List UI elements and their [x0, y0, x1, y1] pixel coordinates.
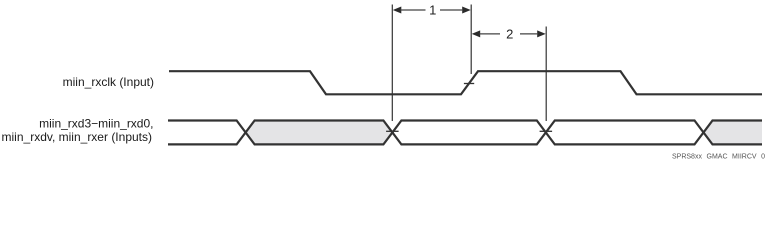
tick mark on bus crossing at x=392 — [386, 130, 399, 132]
svg-text:miin_rxclk (Input): miin_rxclk (Input) — [63, 75, 154, 89]
svg-text:miin_rxd3−miin_rxd0,: miin_rxd3−miin_rxd0, — [39, 116, 153, 130]
bus shaded segment E fill — [704, 121, 763, 145]
measurement arrow 1 right dash — [440, 9, 463, 11]
measurement arrow 1 left dash — [401, 9, 426, 11]
svg-text:2: 2 — [506, 26, 513, 41]
bus waveform rail 2 — [168, 121, 762, 145]
dimension extension line at x=546 — [545, 27, 547, 122]
measurement arrow 2 right dash — [520, 33, 538, 35]
clock waveform miin_rxclk — [169, 71, 762, 94]
measurement arrow 1 right head — [462, 7, 471, 14]
svg-text:miin_rxdv, miin_rxer (Inputs): miin_rxdv, miin_rxer (Inputs) — [2, 130, 152, 144]
dimension extension line at x=392 — [391, 5, 393, 122]
svg-text:1: 1 — [429, 3, 436, 18]
measurement arrow 2 right head — [537, 30, 546, 37]
tick mark on clock rising edge — [464, 83, 474, 85]
measurement arrow 1 left head — [393, 7, 402, 14]
tick mark on bus crossing at x=546 — [540, 130, 553, 132]
bus shaded segment B fill — [246, 121, 393, 145]
measurement arrow 2 left head — [472, 30, 481, 37]
measurement arrow 2 left dash — [480, 33, 501, 35]
svg-text:SPRS8xx GMAC MIIRCV 03: SPRS8xx GMAC MIIRCV 03 — [672, 153, 765, 160]
bus waveform rail 1 — [168, 121, 762, 145]
dimension extension line at x=471 — [470, 5, 472, 75]
